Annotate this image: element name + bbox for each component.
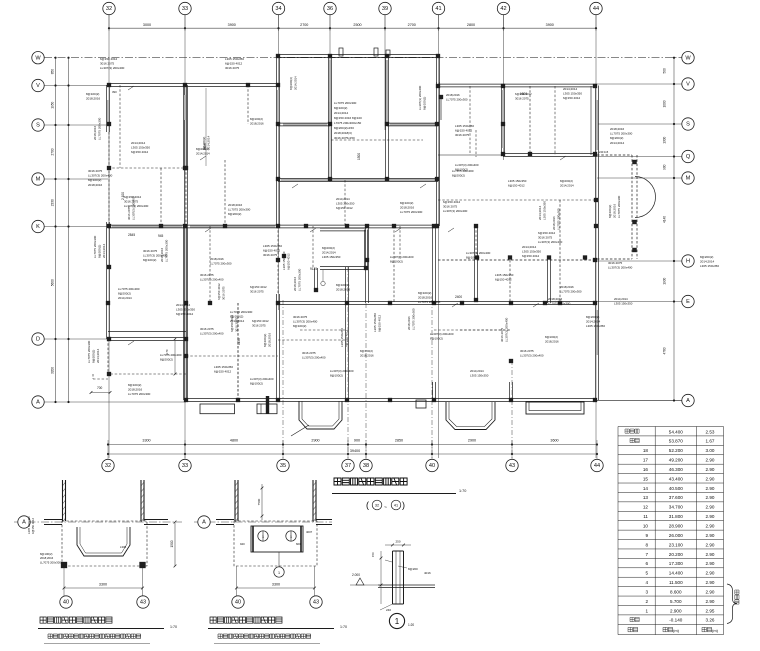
machine-room bracket [727, 584, 739, 624]
svg-text:2500: 2500 [353, 23, 361, 27]
svg-text:2018;2016: 2018;2016 [548, 297, 563, 301]
svg-text:2014;2014: 2014;2014 [196, 151, 210, 155]
svg-text:2900: 2900 [311, 438, 319, 442]
detail 2 title [208, 617, 347, 644]
svg-text:2.90: 2.90 [706, 542, 715, 547]
svg-text:5600: 5600 [51, 279, 55, 286]
svg-text:LL7075 200x300: LL7075 200x300 [165, 239, 169, 262]
svg-text:2850: 2850 [395, 438, 403, 442]
svg-text:3016 2075: 3016 2075 [200, 327, 214, 331]
svg-text:17.300: 17.300 [669, 561, 683, 566]
svg-text:8@200(2): 8@200(2) [560, 179, 573, 183]
svg-text:LL7075 200x300: LL7075 200x300 [98, 117, 102, 140]
svg-text:3016 2075: 3016 2075 [302, 351, 316, 355]
svg-text:3600: 3600 [550, 438, 558, 442]
svg-text:4016: 4016 [424, 571, 431, 575]
svg-text:3016 2075: 3016 2075 [293, 315, 308, 319]
svg-text:LL307(3) 200x400: LL307(3) 200x400 [200, 331, 224, 335]
svg-text:2700: 2700 [51, 148, 55, 155]
detail 2 plan (slab) [194, 480, 332, 608]
svg-text:A: A [202, 520, 206, 526]
svg-text:6@150 4012: 6@150 4012 [515, 92, 532, 96]
svg-text:2018;2016: 2018;2016 [293, 276, 297, 291]
svg-text:3200: 3200 [51, 367, 55, 374]
svg-text:8@100(2): 8@100(2) [143, 258, 156, 262]
svg-text:43: 43 [509, 463, 515, 469]
svg-text:850: 850 [51, 69, 55, 75]
svg-text:1130: 1130 [237, 338, 241, 345]
svg-text:1:70: 1:70 [170, 625, 177, 629]
svg-text:A: A [36, 400, 40, 406]
svg-text:32: 32 [106, 6, 112, 12]
svg-text:8@150 2016 8@100: 8@150 2016 8@100 [334, 116, 362, 120]
svg-text:2014;2014: 2014;2014 [538, 205, 542, 220]
svg-text:L305 150x350: L305 150x350 [373, 313, 377, 332]
svg-text:8@100(2): 8@100(2) [88, 178, 101, 182]
svg-text:2014;2014: 2014;2014 [176, 303, 191, 307]
svg-text:2014;2014: 2014;2014 [560, 183, 574, 187]
octagonal bay window 2 [446, 402, 495, 430]
svg-text:26.000: 26.000 [669, 533, 683, 538]
svg-text:8@100(2): 8@100(2) [250, 381, 263, 385]
svg-text:6@150 4012: 6@150 4012 [443, 200, 461, 204]
svg-text:L305 150x350: L305 150x350 [700, 264, 719, 268]
svg-text:2014;2014: 2014;2014 [610, 141, 625, 145]
svg-text:LL7075 200x300: LL7075 200x300 [87, 340, 91, 363]
svg-text:LL7075 200x300: LL7075 200x300 [446, 97, 468, 101]
svg-text:L305 150x350: L305 150x350 [543, 201, 547, 220]
svg-text:3016 2075: 3016 2075 [127, 206, 131, 220]
svg-text:L305 150x350: L305 150x350 [340, 328, 344, 347]
svg-text:8@200(2): 8@200(2) [322, 246, 335, 250]
svg-text:52.200: 52.200 [669, 448, 683, 453]
svg-text:E: E [686, 299, 690, 305]
svg-text:): ) [402, 500, 405, 510]
right axis bubbles W-A [682, 52, 694, 407]
svg-text:2018;2016: 2018;2016 [93, 125, 97, 140]
svg-text:3016 2075: 3016 2075 [538, 236, 553, 240]
svg-text:L305 150x350: L305 150x350 [470, 373, 489, 377]
svg-text:2.90: 2.90 [706, 524, 715, 529]
svg-text:700: 700 [97, 386, 103, 390]
svg-text:L305 150x350: L305 150x350 [455, 124, 474, 128]
svg-text:8@100(2): 8@100(2) [86, 92, 99, 96]
svg-text:L305 150x350: L305 150x350 [563, 92, 582, 96]
svg-text:34: 34 [275, 6, 281, 12]
svg-text:2.90: 2.90 [706, 533, 715, 538]
svg-text:3016 2075: 3016 2075 [515, 96, 529, 100]
svg-text:8@200(2)x150: 8@200(2)x150 [334, 126, 354, 130]
svg-text:8@100(2): 8@100(2) [250, 117, 263, 121]
svg-text:3300: 3300 [99, 583, 107, 587]
svg-text:LL7075 200x300: LL7075 200x300 [400, 210, 423, 214]
svg-text:LL307(3) 200x400: LL307(3) 200x400 [443, 209, 468, 213]
svg-text:8@200: 8@200 [408, 567, 418, 571]
svg-text:A: A [22, 520, 26, 526]
svg-text:2.90: 2.90 [706, 458, 715, 463]
left axis bubbles W-A [32, 52, 44, 409]
svg-text:2014;2014: 2014;2014 [293, 76, 297, 90]
svg-text:2018;2016: 2018;2016 [128, 388, 143, 392]
svg-text:945: 945 [158, 234, 164, 238]
svg-text:W: W [685, 55, 691, 61]
svg-text:8@100(2): 8@100(2) [360, 349, 373, 353]
svg-text:150: 150 [371, 552, 375, 557]
svg-text:3016 2075: 3016 2075 [443, 205, 458, 209]
svg-text:6@150 4012: 6@150 4012 [214, 370, 232, 374]
svg-text:1.67: 1.67 [706, 439, 715, 444]
svg-text:2014;2014: 2014;2014 [322, 250, 336, 254]
svg-text:43: 43 [313, 600, 319, 606]
svg-text:900: 900 [354, 438, 360, 442]
svg-text:2.90: 2.90 [706, 514, 715, 519]
svg-text:6@150 4012: 6@150 4012 [230, 314, 234, 332]
bottom axis bubbles 32-44 [102, 459, 603, 471]
svg-text:37: 37 [345, 463, 351, 469]
svg-text:2.90: 2.90 [706, 571, 715, 576]
svg-text:2018;2016: 2018;2016 [545, 339, 559, 343]
detail 1 title [38, 617, 177, 644]
svg-text:40.500: 40.500 [669, 486, 683, 491]
svg-text:2700: 2700 [408, 23, 416, 27]
svg-text:6: 6 [645, 561, 648, 566]
svg-text:LL307(3) 200x400: LL307(3) 200x400 [100, 66, 125, 70]
svg-text:2018;2016: 2018;2016 [418, 296, 433, 300]
svg-text:7: 7 [645, 552, 648, 557]
scattered dimension numbers [97, 90, 609, 390]
svg-text:2.53: 2.53 [706, 429, 715, 434]
svg-text:6@150 4012: 6@150 4012 [538, 231, 556, 235]
svg-text:7500: 7500 [257, 498, 261, 505]
svg-text:8@100(2): 8@100(2) [330, 373, 343, 377]
svg-text:6@150 4012: 6@150 4012 [508, 183, 525, 187]
svg-text:46.300: 46.300 [669, 467, 683, 472]
svg-text:LL307(3) 200x400: LL307(3) 200x400 [88, 174, 113, 178]
svg-text:2330: 2330 [51, 199, 55, 206]
svg-text:L7075 200x300x150: L7075 200x300x150 [334, 121, 362, 125]
beam annotation text blocks [86, 57, 719, 396]
svg-text:8@200(2): 8@200(2) [610, 136, 623, 140]
svg-text:LL7075 200x300: LL7075 200x300 [230, 310, 253, 314]
svg-text:2.90: 2.90 [706, 561, 715, 566]
svg-text:L305 150x350: L305 150x350 [214, 365, 233, 369]
svg-text:LL307(3) 200x400: LL307(3) 200x400 [131, 196, 135, 220]
svg-text:8@200(2): 8@200(2) [452, 173, 465, 177]
svg-text:3016 2075: 3016 2075 [225, 66, 240, 70]
svg-text:2018;2016: 2018;2016 [610, 127, 625, 131]
svg-text:8@100(2): 8@100(2) [390, 259, 403, 263]
svg-text:LL307(3) 200x400: LL307(3) 200x400 [608, 266, 633, 270]
svg-text:8@100(2): 8@100(2) [466, 256, 479, 260]
svg-text:LL307(3) 200x400: LL307(3) 200x400 [466, 251, 491, 255]
svg-text:3016 2075: 3016 2075 [88, 169, 103, 173]
svg-text:LL307(3) 200x400: LL307(3) 200x400 [302, 355, 326, 359]
svg-text:2018;2016: 2018;2016 [210, 257, 224, 261]
svg-text:8@200(2): 8@200(2) [228, 212, 241, 216]
leader lines [128, 86, 566, 345]
svg-text:1: 1 [290, 535, 292, 539]
svg-text:2.900: 2.900 [670, 608, 682, 613]
svg-text:44: 44 [594, 463, 600, 469]
svg-text:8@100(2): 8@100(2) [128, 383, 141, 387]
svg-text:53.870: 53.870 [669, 439, 683, 444]
svg-text:8@100(2): 8@100(2) [608, 205, 612, 218]
svg-text:1: 1 [262, 535, 264, 539]
svg-text:LL7075 200x300: LL7075 200x300 [548, 302, 571, 306]
svg-text:3000: 3000 [143, 23, 151, 27]
svg-text:A: A [686, 398, 690, 404]
svg-text:2018;2016: 2018;2016 [86, 97, 101, 101]
svg-text:1500: 1500 [170, 540, 174, 547]
octagonal bay window 1 [299, 401, 342, 429]
svg-text:2014;2014: 2014;2014 [96, 348, 100, 363]
svg-text:49.200: 49.200 [669, 458, 683, 463]
svg-text:8@200(2): 8@200(2) [289, 77, 293, 90]
svg-text:8.600: 8.600 [670, 589, 682, 594]
svg-text:LL307(3) 200x400: LL307(3) 200x400 [520, 353, 544, 357]
svg-text:3300: 3300 [142, 438, 150, 442]
svg-text:6@150 4012: 6@150 4012 [563, 96, 581, 100]
svg-text:S: S [686, 122, 690, 128]
svg-text:L305 150x350: L305 150x350 [131, 146, 150, 150]
svg-text:500: 500 [663, 68, 667, 74]
svg-text:9: 9 [645, 533, 648, 538]
svg-text:LL307(3) 200x400: LL307(3) 200x400 [538, 240, 563, 244]
svg-text:LL7075 200x300: LL7075 200x300 [40, 560, 61, 564]
svg-text:2.90: 2.90 [706, 467, 715, 472]
svg-text:2900: 2900 [468, 438, 476, 442]
section detail number 1 [389, 613, 414, 628]
svg-text:3016 2075: 3016 2075 [252, 323, 266, 327]
svg-text:43.400: 43.400 [669, 476, 683, 481]
svg-text:2: 2 [645, 599, 648, 604]
svg-text:L305 150x350: L305 150x350 [508, 179, 527, 183]
bay window rect 2 [526, 402, 584, 414]
svg-text:8@200(2): 8@200(2) [586, 315, 599, 319]
svg-text:L305 150x350: L305 150x350 [614, 301, 633, 305]
svg-text:250: 250 [395, 540, 400, 544]
svg-text:LL307(3) 200x400: LL307(3) 200x400 [455, 163, 479, 167]
svg-text:2.90: 2.90 [706, 580, 715, 585]
svg-text:40: 40 [63, 600, 69, 606]
svg-text:2018;2016: 2018;2016 [400, 206, 415, 210]
svg-text:~: ~ [384, 505, 387, 511]
svg-text:L305 150x350: L305 150x350 [282, 251, 286, 270]
svg-text:(m): (m) [712, 628, 719, 633]
svg-text:8@200(2): 8@200(2) [196, 147, 209, 151]
svg-text:1: 1 [395, 617, 400, 626]
svg-text:1900: 1900 [663, 277, 667, 284]
svg-text:390: 390 [112, 90, 117, 94]
svg-text:3016 2075: 3016 2075 [100, 62, 115, 66]
svg-text:2018;2016: 2018;2016 [250, 121, 264, 125]
extra dashed beam lines [120, 85, 597, 400]
svg-text:2.90: 2.90 [706, 589, 715, 594]
svg-text:2014;2014: 2014;2014 [470, 369, 484, 373]
svg-text:10: 10 [643, 524, 649, 529]
svg-text:3.00: 3.00 [706, 448, 715, 453]
svg-text:20.200: 20.200 [669, 552, 683, 557]
svg-text:L305 150x350: L305 150x350 [322, 255, 341, 259]
svg-text:6@150 4012: 6@150 4012 [336, 206, 353, 210]
svg-text:L305 150x350: L305 150x350 [586, 324, 605, 328]
svg-text:2.90: 2.90 [706, 476, 715, 481]
svg-text:40: 40 [429, 463, 435, 469]
svg-text:2018;2016: 2018;2016 [407, 316, 411, 330]
svg-text:31.800: 31.800 [669, 514, 683, 519]
svg-text:17: 17 [643, 458, 649, 463]
svg-text:3900: 3900 [546, 23, 554, 27]
column blobs [106, 54, 598, 402]
top parapet ticks [339, 48, 390, 56]
svg-text:42: 42 [500, 6, 506, 12]
svg-text:32: 32 [375, 504, 379, 508]
svg-text:6@150 4012: 6@150 4012 [345, 329, 349, 347]
svg-text:LL307(3) 200x400: LL307(3) 200x400 [293, 320, 318, 324]
svg-text:8@200(2): 8@200(2) [98, 245, 102, 258]
floor level table [618, 427, 724, 635]
svg-text:41: 41 [435, 6, 441, 12]
svg-text:940: 940 [240, 542, 245, 546]
svg-text:9125: 9125 [310, 267, 317, 271]
svg-text:2018;2016: 2018;2016 [552, 216, 556, 230]
svg-text:8@100(2): 8@100(2) [418, 291, 431, 295]
svg-text:2845: 2845 [128, 233, 135, 237]
svg-text:3016 2075x150: 3016 2075x150 [334, 136, 355, 140]
column section detail [350, 540, 435, 613]
svg-text:2.90: 2.90 [706, 505, 715, 510]
svg-text:1:70: 1:70 [340, 625, 347, 629]
svg-text:8@100(2): 8@100(2) [545, 335, 558, 339]
svg-text:8@100(2): 8@100(2) [334, 106, 347, 110]
svg-text:11: 11 [643, 514, 648, 519]
svg-text:12: 12 [643, 505, 649, 510]
extra annotation blocks [118, 76, 633, 385]
exterior walls outline [107, 55, 599, 402]
svg-text:8@200(2): 8@200(2) [160, 357, 173, 361]
svg-text:8@200(2): 8@200(2) [118, 291, 131, 295]
svg-text:4800: 4800 [230, 438, 238, 442]
svg-text:2.95: 2.95 [706, 608, 715, 613]
svg-text:3016 2075: 3016 2075 [200, 273, 214, 277]
top axis bubbles 32-44 [103, 2, 602, 14]
svg-text:8@200(2): 8@200(2) [92, 350, 96, 363]
svg-text:600: 600 [296, 542, 301, 546]
svg-text:2014;2014: 2014;2014 [522, 245, 537, 249]
svg-text:6@150 4012: 6@150 4012 [100, 57, 118, 61]
top dimension chain [108, 15, 597, 31]
svg-text:LL307(3) 200x400: LL307(3) 200x400 [505, 317, 509, 342]
svg-text:13: 13 [643, 495, 649, 500]
main title bar [332, 478, 466, 511]
svg-text:2014;2014: 2014;2014 [586, 320, 601, 324]
svg-text:3300: 3300 [272, 583, 280, 587]
svg-text:6@150 4012: 6@150 4012 [176, 312, 194, 316]
svg-text:8@200(2): 8@200(2) [700, 255, 713, 259]
svg-text:2.000: 2.000 [352, 573, 360, 577]
stair core room [278, 226, 367, 294]
svg-text:M: M [686, 176, 691, 182]
svg-text:L305: L305 [120, 545, 127, 549]
svg-text:8@100(2): 8@100(2) [423, 97, 427, 110]
svg-text:LL7075 200x300: LL7075 200x300 [610, 132, 633, 136]
svg-text:2014;2014: 2014;2014 [563, 87, 578, 91]
svg-text:6@150 4012: 6@150 4012 [252, 319, 269, 323]
svg-text:V: V [686, 82, 690, 88]
svg-text:5: 5 [645, 571, 648, 576]
svg-text:LL7075 200x300: LL7075 200x300 [228, 208, 251, 212]
svg-text:3016 2075: 3016 2075 [455, 133, 470, 137]
svg-text:2014;2014: 2014;2014 [334, 111, 349, 115]
svg-text:LL307(3) 200x400: LL307(3) 200x400 [390, 255, 414, 259]
svg-text:2.100: 2.100 [121, 192, 125, 200]
svg-text:36: 36 [327, 6, 333, 12]
svg-text:33: 33 [182, 463, 188, 469]
svg-text:1000: 1000 [663, 100, 667, 107]
svg-text:LL307(3) 200x400: LL307(3) 200x400 [418, 85, 422, 110]
svg-text:2.90: 2.90 [706, 495, 715, 500]
svg-text:6@150 4012: 6@150 4012 [495, 277, 512, 281]
svg-text:2018;2016: 2018;2016 [228, 203, 243, 207]
svg-text:33: 33 [182, 6, 188, 12]
svg-text:2014;2014: 2014;2014 [614, 297, 628, 301]
svg-text:38: 38 [363, 463, 369, 469]
svg-text:6@150 4012: 6@150 4012 [522, 254, 540, 258]
svg-text:(: ( [366, 500, 369, 510]
svg-text:3016 2075: 3016 2075 [520, 349, 534, 353]
svg-text:1300: 1300 [663, 136, 667, 143]
svg-text:6@150 4012: 6@150 4012 [250, 285, 267, 289]
svg-text:2014;2014: 2014;2014 [102, 243, 106, 258]
entry door stoop [257, 396, 277, 414]
svg-text:16: 16 [643, 467, 649, 472]
svg-text:11.500: 11.500 [669, 580, 683, 585]
svg-text:1:20: 1:20 [408, 623, 414, 627]
svg-text:LL7075 200x300: LL7075 200x300 [93, 235, 97, 258]
svg-text:28.900: 28.900 [669, 524, 683, 529]
svg-text:M: M [36, 177, 41, 183]
svg-text:5.700: 5.700 [670, 599, 682, 604]
svg-text:43: 43 [140, 600, 146, 606]
svg-text:2014;2014: 2014;2014 [131, 141, 146, 145]
svg-text:34.700: 34.700 [669, 505, 683, 510]
svg-text:D: D [36, 337, 40, 343]
svg-text:2014;2014: 2014;2014 [700, 260, 715, 264]
svg-text:3016 2075: 3016 2075 [500, 327, 504, 342]
svg-text:40: 40 [235, 600, 241, 606]
svg-text:6@150 4012: 6@150 4012 [131, 150, 149, 154]
svg-text:3016 2075: 3016 2075 [143, 249, 158, 253]
svg-text:15: 15 [643, 476, 649, 481]
core dense annotation block [334, 101, 362, 140]
svg-text:8@100(2): 8@100(2) [430, 336, 443, 340]
svg-text:L305 150x350: L305 150x350 [336, 201, 355, 205]
svg-text:LL7075 200x300: LL7075 200x300 [617, 195, 621, 218]
gray shear-wall segments [108, 60, 597, 355]
svg-text:3016 2075: 3016 2075 [221, 286, 225, 300]
svg-text:54.400: 54.400 [669, 429, 683, 434]
svg-text:L305 150x350: L305 150x350 [225, 57, 244, 61]
svg-text:240: 240 [386, 608, 391, 612]
svg-text:2.90: 2.90 [706, 599, 715, 604]
svg-text:8: 8 [645, 542, 648, 547]
svg-text:2018;2018(3): 2018;2018(3) [334, 131, 352, 135]
right dimension chain [663, 57, 676, 402]
svg-text:2018;2016: 2018;2016 [613, 203, 617, 218]
svg-text:23.100: 23.100 [669, 542, 683, 547]
svg-text:H: H [686, 259, 690, 265]
svg-text:2018;2016: 2018;2016 [360, 353, 374, 357]
